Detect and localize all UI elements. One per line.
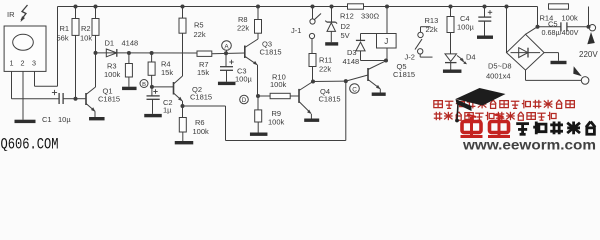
svg-text:100µ: 100µ: [457, 23, 475, 32]
bridge rectifier D5-D8: [507, 34, 545, 70]
signal line at y52: [96, 52, 198, 54]
ground under D4: [443, 70, 462, 73]
red warning note line 1: [434, 101, 443, 108]
svg-text:15k: 15k: [161, 68, 173, 77]
svg-text:22k: 22k: [237, 23, 249, 32]
svg-text:C1815: C1815: [260, 48, 282, 57]
svg-text:C1815: C1815: [190, 93, 212, 102]
svg-text:100k: 100k: [268, 118, 285, 127]
svg-text:100k: 100k: [562, 14, 579, 23]
node C wire: [311, 80, 315, 84]
zener diode D2: [330, 5, 334, 9]
resistor R3: [127, 51, 131, 55]
resistor R9: [257, 96, 259, 110]
svg-text:R5: R5: [194, 21, 204, 30]
flyback diode D3: [360, 51, 362, 61]
svg-text:0.68µ/400V: 0.68µ/400V: [542, 28, 579, 37]
IR pin 2 wire: [22, 71, 24, 119]
switch J-2: [421, 26, 431, 28]
svg-text:100k: 100k: [270, 80, 287, 89]
transistor Q1: [85, 93, 87, 105]
svg-text:15k: 15k: [197, 68, 209, 77]
svg-text:100k: 100k: [104, 70, 121, 79]
svg-text:330Ω: 330Ω: [361, 12, 380, 21]
svg-text:B: B: [142, 82, 146, 88]
ground at bridge: [551, 61, 567, 64]
IR pin 3 wire to rail: [34, 71, 36, 86]
svg-text:J: J: [384, 37, 388, 46]
svg-text:4148: 4148: [343, 57, 360, 66]
resistor R6: [182, 106, 184, 118]
svg-text:4148: 4148: [122, 39, 139, 48]
IR pin 1 wire: [11, 71, 13, 98]
svg-text:R13: R13: [425, 16, 439, 25]
transistor Q4: [298, 89, 300, 103]
node Q2 emitter: [181, 104, 185, 108]
ground under R6: [175, 141, 194, 144]
svg-text:D: D: [242, 97, 247, 104]
svg-text:R11: R11: [319, 55, 332, 64]
capacitor C1: [52, 92, 57, 94]
svg-text:100µ: 100µ: [235, 75, 253, 84]
svg-text:C1815: C1815: [319, 95, 341, 104]
svg-text:5V: 5V: [341, 31, 350, 40]
resistor R2: [94, 5, 98, 9]
feedback wire to node C: [183, 105, 226, 107]
node A: [224, 51, 228, 55]
svg-text:22k: 22k: [194, 30, 206, 39]
svg-text:C1815: C1815: [98, 95, 120, 104]
LED D4 arrows: [457, 56, 463, 61]
resistor R5: [181, 5, 185, 9]
svg-text:22k: 22k: [319, 64, 331, 73]
site name text: [516, 122, 529, 125]
svg-text:IR: IR: [7, 10, 15, 19]
svg-text:100k: 100k: [193, 127, 210, 136]
svg-text:R12: R12: [340, 12, 354, 21]
svg-text:2: 2: [21, 59, 25, 68]
ground under R9: [250, 133, 268, 136]
LED D4: [445, 54, 457, 62]
svg-text:www.eeworm.com: www.eeworm.com: [462, 137, 596, 151]
AC terminal top: [589, 25, 595, 31]
svg-text:D5~D8: D5~D8: [488, 62, 512, 71]
capacitor C4: [483, 5, 487, 9]
svg-text:22k: 22k: [426, 25, 438, 34]
bridge right vertex to ground: [544, 52, 558, 54]
svg-text:A: A: [224, 43, 229, 50]
svg-text:D2: D2: [341, 22, 351, 31]
svg-text:R2: R2: [81, 24, 91, 33]
eeworm logo bugs: [462, 122, 481, 133]
node B: [140, 80, 148, 88]
svg-text:J-1: J-1: [291, 26, 301, 35]
transistor Q5: [367, 68, 369, 81]
switch J-1: [311, 5, 315, 9]
resistor R7: [197, 51, 212, 56]
red warning note line 2: [434, 113, 442, 115]
svg-text:R6: R6: [195, 118, 205, 127]
ground under pin 2: [15, 120, 36, 123]
resistor R13: [449, 5, 453, 9]
ground under Q4: [304, 119, 319, 122]
ground under C2: [144, 114, 162, 117]
node D1 anode: [94, 51, 98, 55]
node base of Q1: [74, 97, 78, 101]
svg-text:C1: C1: [42, 115, 52, 124]
ground under D2: [325, 42, 338, 45]
resistor R8: [256, 5, 260, 9]
svg-text:D1: D1: [105, 39, 115, 48]
ground under R3: [122, 87, 137, 90]
svg-text:D4: D4: [466, 52, 476, 61]
svg-text:R1: R1: [60, 24, 70, 33]
ground under Q5: [372, 93, 386, 96]
svg-text:J-2: J-2: [405, 52, 415, 61]
AC terminal bottom: [525, 70, 527, 80]
svg-text:10k: 10k: [80, 33, 92, 42]
svg-text:10µ: 10µ: [58, 115, 71, 124]
transistor Q3: [244, 46, 246, 59]
resistor R4: [150, 51, 154, 55]
eeworm logo cap: [456, 88, 506, 106]
top power rail: [58, 6, 538, 8]
resistor R11: [311, 39, 313, 54]
svg-text:C1815: C1815: [393, 70, 415, 79]
node D: [256, 94, 260, 98]
svg-text:C: C: [352, 86, 357, 93]
IR receiver module box: [4, 26, 46, 71]
ground under Q1: [89, 117, 105, 120]
svg-text:1µ: 1µ: [163, 106, 172, 115]
R14 C5 snubber loop: [537, 7, 539, 27]
svg-text:D3: D3: [347, 48, 357, 57]
transistor Q2: [173, 82, 175, 95]
relay coil J: [385, 5, 389, 9]
diode D1: [106, 49, 117, 57]
wire rail to bridge: [505, 5, 509, 9]
capacitor C2: [153, 91, 157, 93]
svg-text:56k: 56k: [57, 33, 69, 42]
capacitor C5: [538, 26, 561, 28]
svg-text:220V: 220V: [579, 50, 598, 59]
capacitor C3: [225, 53, 227, 66]
svg-text:3: 3: [32, 59, 36, 68]
resistor R1: [74, 5, 78, 9]
ground under C4: [477, 36, 493, 39]
ground under C3: [218, 82, 236, 85]
resistor R12: [348, 4, 364, 9]
svg-text:4001x4: 4001x4: [486, 71, 511, 80]
svg-text:1: 1: [10, 59, 14, 68]
resistor R10: [258, 95, 270, 97]
svg-text:Q606.COM: Q606.COM: [1, 135, 59, 151]
